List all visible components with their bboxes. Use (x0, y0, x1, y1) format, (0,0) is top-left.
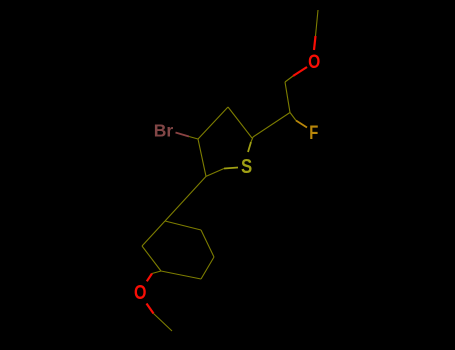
svg-text:O: O (308, 51, 320, 73)
wire: C_b to F bond (gold half toward F) (290, 113, 296, 121)
wire: phenyl edge C6'-C1' (142, 221, 165, 246)
node Br1: bromine label (154, 121, 174, 141)
node O1: top methoxy oxygen (308, 51, 320, 73)
wire: C5 to S, carbon half (251, 137, 253, 142)
wire: C_b to thiophene C5 (253, 113, 290, 138)
wire: C_a to C_b bond (285, 82, 290, 113)
wire: methyl C-H3C to O (top methoxy), carbon half (316, 10, 319, 36)
wire: C3 to C4 bond (198, 107, 228, 139)
wire: phenyl edge C4'-C5' (161, 271, 201, 279)
wire: C5 to S, sulfur half (yellow) (248, 142, 251, 152)
wire: phenyl edge C1'-C2' (165, 221, 201, 230)
wire: thiophene C2=C3 bond (198, 139, 206, 176)
wire: C3 to Br, bromine half (brick) (176, 133, 190, 137)
wire: phenyl edge C5'-C6' (142, 246, 161, 271)
wire: phenyl edge C2'-C3' (201, 230, 214, 257)
wire: methyl to O (top methoxy), oxygen half (314, 36, 316, 50)
wire: C5' to O2, oxygen half (red) (147, 274, 152, 282)
wire: S to C2, carbon half (206, 169, 224, 177)
node F1: fluorine label (309, 122, 318, 143)
wire: O1 to C_a, carbon half (olive) (285, 76, 293, 82)
wire: S to C2, sulfur half (yellow) (224, 168, 238, 169)
wire: C5' to O2, carbon half (152, 271, 161, 274)
svg-text:S: S (241, 155, 252, 178)
svg-text:F: F (309, 122, 318, 143)
wire: C2 to phenyl C1' bond (165, 176, 206, 221)
svg-text:Br: Br (154, 121, 174, 141)
svg-text:O: O (134, 281, 146, 303)
wire: C3 to Br, carbon half (189, 137, 198, 140)
wire: O2 to methyl CH3, carbon half (154, 314, 173, 332)
node S1: thiophene sulfur (241, 155, 252, 178)
wire: C4=C5 bond (228, 107, 252, 138)
wire: C_b to F, fluorine half (gold) (296, 121, 307, 128)
wire: O2 to methyl, oxygen half (red) (147, 304, 154, 314)
wire: O1 to C_a, oxygen half (red) (293, 67, 307, 76)
wire: phenyl edge C3'-C4' (201, 257, 214, 279)
node O2: bottom methoxy oxygen (134, 281, 146, 303)
